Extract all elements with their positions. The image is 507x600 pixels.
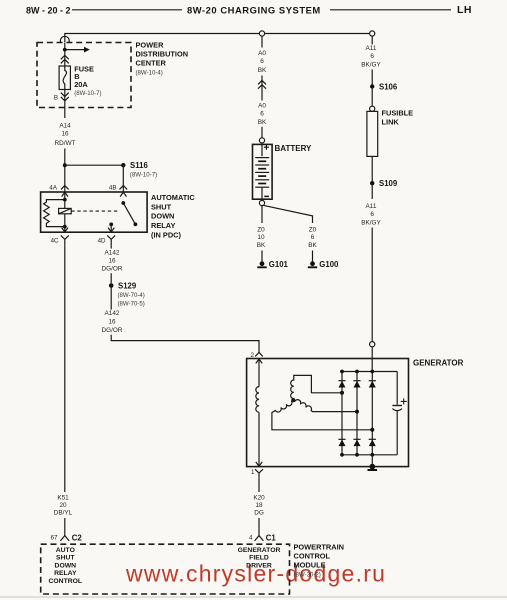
wire: negative bus to case ground: [371, 455, 373, 467]
svg-text:RD/WT: RD/WT: [55, 140, 76, 147]
svg-text:16: 16: [108, 257, 116, 264]
rectifier positive bus: [342, 371, 397, 373]
stator winding phase A: [291, 375, 342, 400]
stator wye neutral node: [291, 398, 295, 402]
svg-text:Z0: Z0: [309, 227, 317, 234]
wire: to splice S129: [110, 273, 112, 283]
power distribution center box (dashed): [37, 43, 131, 108]
connector chevron generator pin 1: [255, 469, 263, 477]
capacitor (noise suppression): [392, 398, 406, 410]
svg-text:DRIVER: DRIVER: [246, 562, 272, 569]
label S129: [118, 282, 145, 308]
svg-text:BK: BK: [258, 67, 267, 74]
connector C2: [60, 536, 69, 541]
svg-text:SHUT: SHUT: [151, 202, 172, 211]
wire label A142 16 DG/OR lower: [102, 310, 123, 334]
fusible link terminal eyelet: [370, 106, 375, 111]
svg-text:A11: A11: [366, 45, 377, 52]
svg-text:20: 20: [59, 502, 67, 509]
svg-text:4A: 4A: [49, 185, 57, 192]
svg-text:(8W-10-7): (8W-10-7): [74, 90, 101, 97]
svg-text:6: 6: [370, 53, 374, 60]
svg-text:A142: A142: [105, 249, 120, 256]
splice S109: [370, 181, 374, 185]
node: bus eyelet to A11: [370, 31, 375, 36]
svg-text:GENERATOR: GENERATOR: [413, 359, 464, 368]
svg-text:S129: S129: [118, 282, 137, 291]
wire label A11 6 BK/GY upper: [361, 45, 381, 68]
connector chevron pin 4B: [120, 186, 128, 190]
field winding: [256, 359, 259, 467]
connector chevron below pin 4D: [107, 235, 115, 245]
svg-text:C2: C2: [72, 534, 83, 543]
svg-text:CONTROL: CONTROL: [294, 551, 331, 560]
svg-text:8W-20 CHARGING SYSTEM: 8W-20 CHARGING SYSTEM: [187, 4, 321, 15]
svg-text:AUTO: AUTO: [56, 547, 75, 554]
label S116: [130, 161, 157, 178]
connector chevron below pin 4C: [61, 235, 69, 245]
svg-text:18: 18: [255, 502, 263, 509]
wire: K51 to C2: [64, 518, 66, 536]
svg-text:LH: LH: [457, 4, 472, 16]
svg-text:POWER: POWER: [136, 40, 165, 49]
node resistor top: [63, 198, 67, 202]
rectifier leg 3: [371, 372, 373, 455]
svg-text:DG/OR: DG/OR: [102, 327, 123, 334]
splice S106: [370, 84, 374, 88]
label POWERTRAIN CONTROL MODULE: [294, 543, 345, 579]
label POWER DISTRIBUTION CENTER: [136, 40, 189, 76]
diode D1 upper: [338, 381, 345, 388]
wire label A11 6 BK/GY lower: [361, 203, 381, 227]
arrow out of relay pin 4D: [108, 228, 114, 232]
svg-text:AUTOMATIC: AUTOMATIC: [151, 193, 195, 202]
wire: tap to splice S116: [65, 164, 124, 166]
diode D3 upper: [369, 381, 376, 388]
svg-text:(8W-10-4): (8W-10-4): [136, 70, 163, 77]
generator box: [247, 359, 409, 467]
wire: battery negative diagonal to G100: [264, 205, 313, 223]
label FUSE B 20A: [74, 64, 101, 97]
node neg bus col3: [370, 453, 374, 457]
arrow out of relay pin 4C: [62, 228, 68, 232]
wire: top feed bus: [65, 34, 372, 43]
svg-text:BK: BK: [257, 242, 266, 249]
wire: to battery terminal: [261, 127, 263, 138]
header rule right: [330, 9, 451, 11]
svg-text:10: 10: [257, 234, 265, 241]
wire: label gap to S106: [371, 70, 373, 107]
svg-text:1: 1: [251, 469, 255, 476]
node: bus eyelet to battery A0: [259, 31, 264, 36]
wire: bus to battery upper: [261, 36, 263, 47]
node bus col3: [370, 370, 374, 374]
label GENERATOR FIELD DRIVER: [238, 547, 281, 570]
wire label Z0 10 BK: [257, 227, 266, 249]
wire: 4D contact to pin: [110, 224, 112, 231]
svg-text:6: 6: [311, 234, 315, 241]
fuse B 20A: [59, 66, 70, 90]
wire: fusible link to S109: [371, 156, 373, 199]
switch armature: [123, 203, 135, 224]
wire: K20 to C1: [258, 518, 260, 536]
grommet symbol at PDC box entry: [60, 36, 69, 42]
powertrain control module box (dashed): [41, 544, 290, 594]
wire label Z0 6 BK: [308, 227, 317, 249]
arrow out of generator pin 1: [256, 462, 262, 466]
relay coil: [59, 208, 72, 213]
ground G100: [308, 261, 317, 267]
svg-text:DB/YL: DB/YL: [54, 510, 73, 517]
svg-text:16: 16: [61, 130, 69, 137]
connector C1: [255, 536, 264, 541]
svg-text:CENTER: CENTER: [136, 59, 167, 68]
node armature contact: [134, 222, 138, 226]
svg-text:(IN PDC): (IN PDC): [151, 231, 182, 240]
svg-text:FUSIBLE: FUSIBLE: [382, 109, 414, 118]
diode D4 lower: [338, 439, 345, 446]
svg-text:A0: A0: [258, 50, 266, 57]
fusible link: [367, 111, 378, 156]
stator winding phase C: [293, 400, 357, 412]
wire: A11 down to generator: [371, 228, 373, 342]
svg-text:4: 4: [249, 534, 253, 541]
diode D5 lower: [353, 439, 360, 446]
connector chevrons below fuse: [61, 93, 69, 101]
svg-text:RELAY: RELAY: [54, 570, 77, 577]
node junction with branch arrow: [63, 48, 67, 52]
svg-text:DG: DG: [254, 510, 264, 517]
splice S116: [121, 163, 125, 167]
svg-text:G100: G100: [319, 260, 339, 269]
svg-text:67: 67: [51, 534, 58, 541]
arrow into generator pin 2: [256, 359, 262, 363]
wire: 4C down to C2: [64, 246, 66, 492]
node stator tap leg2: [355, 410, 359, 414]
wire: to ground G101: [261, 251, 263, 262]
wire: A14 to relay: [64, 149, 66, 209]
svg-text:C1: C1: [266, 534, 277, 543]
svg-text:S116: S116: [130, 161, 148, 170]
svg-text:DOWN: DOWN: [55, 562, 77, 569]
wire: pin 1 to label gap: [258, 477, 260, 492]
svg-text:6: 6: [260, 111, 264, 118]
svg-text:BK/GY: BK/GY: [361, 220, 381, 227]
svg-text:FIELD: FIELD: [249, 555, 269, 562]
connector chevrons battery feed: [258, 80, 266, 88]
svg-text:G101: G101: [269, 260, 289, 269]
label AUTO SHUT DOWN RELAY CONTROL: [48, 547, 82, 585]
ground G101: [257, 261, 266, 267]
header rule left: [72, 9, 182, 11]
svg-text:BATTERY: BATTERY: [275, 144, 313, 153]
svg-text:MODULE: MODULE: [294, 560, 326, 569]
wire: battery feed mid: [261, 76, 263, 101]
svg-text:A0: A0: [258, 102, 266, 109]
wire: 4D down to label gap: [110, 246, 112, 249]
svg-text:(8W-30-2): (8W-30-2): [294, 572, 321, 579]
svg-text:SHUT: SHUT: [56, 555, 75, 562]
svg-text:6: 6: [260, 58, 264, 65]
splice S129: [109, 283, 114, 288]
node stator tap leg1: [340, 391, 344, 395]
svg-text:BK: BK: [308, 242, 317, 249]
wire: S116 to relay pin 4B: [122, 165, 124, 192]
rectifier leg 1: [341, 372, 343, 455]
connector chevron generator pin 2: [255, 352, 263, 356]
svg-text:CONTROL: CONTROL: [48, 578, 82, 585]
svg-text:20A: 20A: [74, 80, 88, 89]
svg-text:16: 16: [108, 319, 116, 326]
arrow: circuit continues: [65, 47, 90, 53]
svg-text:RELAY: RELAY: [151, 221, 175, 230]
svg-text:LINK: LINK: [382, 117, 400, 126]
battery: [253, 144, 273, 199]
node stator tap leg3: [370, 428, 374, 432]
svg-text:A142: A142: [105, 310, 120, 317]
arrow into relay pin 4A: [62, 192, 68, 196]
svg-text:Z0: Z0: [257, 227, 265, 234]
svg-text:BK/GY: BK/GY: [361, 61, 381, 68]
connector chevrons above fuse: [61, 55, 69, 63]
svg-text:(8W-10-7): (8W-10-7): [130, 171, 157, 178]
svg-text:DISTRIBUTION: DISTRIBUTION: [136, 49, 189, 58]
capacitor branch wire: [396, 372, 398, 405]
page bottom rule: [0, 596, 507, 598]
svg-text:4C: 4C: [51, 237, 59, 244]
wire: fuse output: [64, 90, 66, 119]
svg-text:K51: K51: [57, 495, 69, 502]
svg-text:A14: A14: [59, 122, 71, 129]
diode D6 lower: [369, 439, 376, 446]
node neg bus col1: [340, 453, 344, 457]
svg-text:POWERTRAIN: POWERTRAIN: [294, 543, 345, 552]
generator output terminal eyelet: [370, 342, 375, 347]
wire label A0 6 BK upper: [258, 50, 267, 74]
arrow into relay pin 4B: [120, 192, 126, 196]
svg-text:S109: S109: [379, 179, 398, 188]
node 4D contact: [109, 223, 113, 227]
stator winding phase B: [272, 400, 372, 430]
svg-text:B: B: [54, 95, 58, 102]
wire label A142 16 DG/OR: [102, 249, 123, 272]
connector chevron pin 4A: [61, 186, 69, 190]
rectifier negative bus: [342, 454, 397, 456]
battery negative terminal eyelet: [259, 200, 264, 205]
svg-text:DG/OR: DG/OR: [102, 266, 123, 273]
svg-text:4D: 4D: [98, 237, 106, 244]
svg-text:BK: BK: [258, 119, 267, 126]
svg-text:8W - 20 - 2: 8W - 20 - 2: [26, 5, 71, 15]
svg-text:6: 6: [370, 211, 374, 218]
wire: to ground G100: [312, 251, 314, 262]
generator case ground: [368, 464, 378, 470]
svg-text:K20: K20: [253, 495, 265, 502]
battery positive terminal eyelet: [259, 138, 264, 143]
automatic shut down relay box: [41, 192, 148, 232]
svg-text:GENERATOR: GENERATOR: [238, 547, 281, 554]
wire: A142 run to generator pin 2: [111, 335, 259, 353]
node bus col2: [355, 370, 359, 374]
wire label A0 6 BK lower: [258, 102, 267, 125]
node neg bus col2: [355, 453, 359, 457]
label AUTOMATIC SHUT DOWN RELAY (IN PDC): [151, 193, 195, 240]
rectifier leg 2: [356, 372, 358, 455]
wire: capacitor to negative bus: [396, 411, 398, 455]
diode D2 upper: [353, 381, 360, 388]
wire: S129 down: [110, 286, 112, 310]
wire label K20 18 DG: [253, 495, 265, 517]
svg-text:A11: A11: [366, 203, 377, 210]
svg-text:S106: S106: [379, 82, 398, 91]
wire: PDC internal feed: [64, 43, 66, 67]
node junction at S116 tap: [63, 163, 67, 167]
dashed actuator link: [71, 210, 120, 212]
node resistor bottom: [63, 225, 67, 229]
wire: coil to 4C contact: [64, 214, 66, 232]
resistor (relay coil suppression): [44, 200, 65, 227]
node bus col1: [340, 370, 344, 374]
svg-text:(8W-70-5): (8W-70-5): [118, 301, 145, 308]
svg-text:(8W-70-4): (8W-70-4): [118, 292, 145, 299]
wire: bus to S106: [371, 36, 373, 44]
svg-text:4B: 4B: [109, 185, 117, 192]
wire label A14 16 RD/WT: [55, 122, 76, 147]
wire label K51 20 DB/YL: [54, 495, 73, 517]
node switch pivot at 4B: [121, 201, 125, 205]
wire: battery negative to G101: [261, 206, 263, 223]
svg-text:DOWN: DOWN: [151, 212, 174, 221]
wire: into generator rectifier: [371, 347, 373, 372]
label FUSIBLE LINK: [382, 109, 414, 127]
